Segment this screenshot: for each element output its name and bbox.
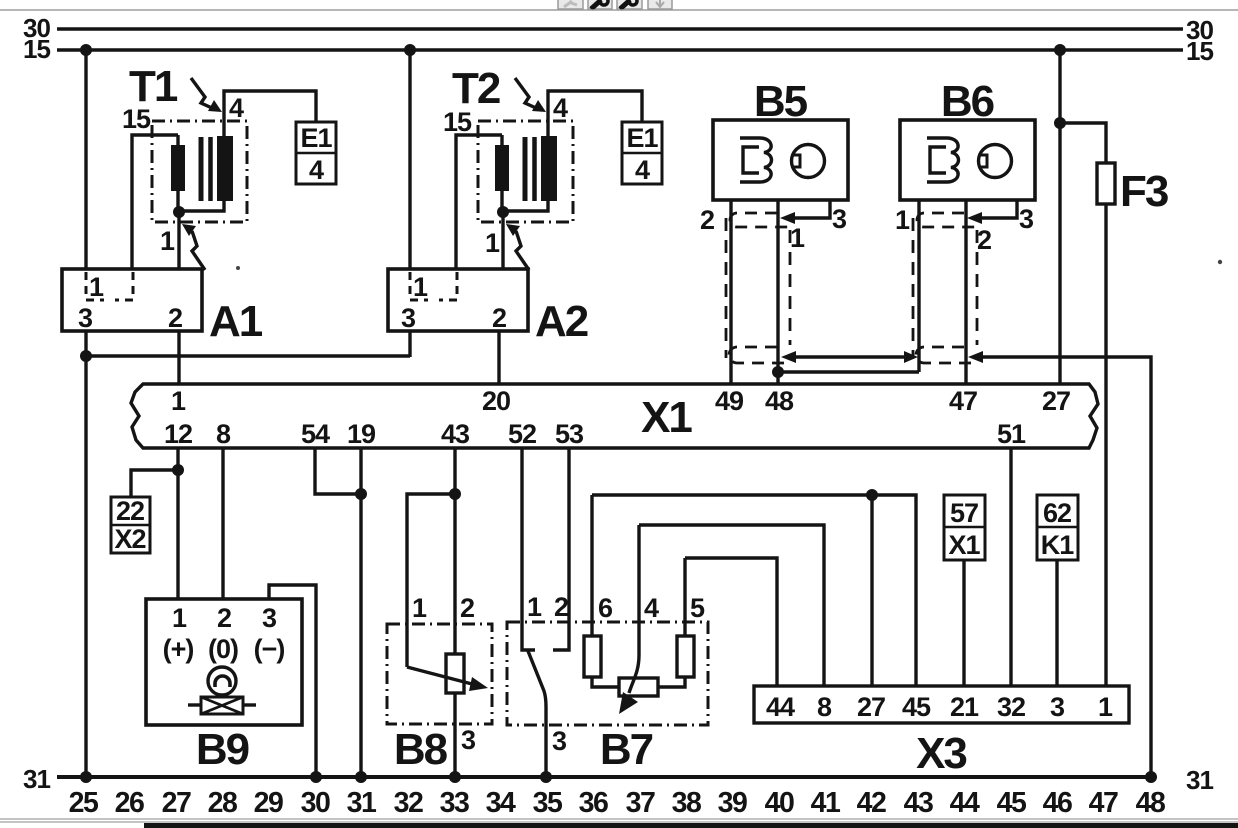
wire A1 pin3 to bus 31 xyxy=(84,331,87,777)
svg-text:43: 43 xyxy=(904,787,933,819)
B9 valve symbol xyxy=(188,697,256,714)
B7 wiper arrow pin 4 xyxy=(619,622,639,714)
wire X1-54 down xyxy=(315,448,361,494)
svg-text:1: 1 xyxy=(895,205,910,235)
svg-text:44: 44 xyxy=(950,787,980,819)
ground box E1/4 (T2) xyxy=(622,122,662,185)
wire X1-12 to B9 pin 1 xyxy=(176,448,179,600)
T2 spark arrow top xyxy=(515,78,546,112)
svg-text:1: 1 xyxy=(485,228,500,258)
wire B9 pin 3 to bus 31 xyxy=(269,585,316,777)
node A1 pin3 / A2 pin3 tee xyxy=(80,350,92,362)
node bus31/B9 xyxy=(310,771,322,783)
wire pin 6 to X3-45 xyxy=(592,495,916,687)
svg-text:45: 45 xyxy=(997,787,1027,819)
connector strip X1 outline xyxy=(131,384,1098,448)
svg-text:1: 1 xyxy=(412,593,427,623)
svg-text:X1: X1 xyxy=(948,530,980,560)
svg-text:4: 4 xyxy=(309,155,324,185)
svg-text:31: 31 xyxy=(347,787,377,819)
svg-text:F3: F3 xyxy=(1120,167,1168,216)
svg-text:2: 2 xyxy=(492,303,506,333)
svg-text:1: 1 xyxy=(1098,692,1113,722)
B9 throttle symbol circle xyxy=(208,667,236,695)
wire A1-A2 pin3 link xyxy=(86,354,410,357)
toolbar button 2 (zoom in) xyxy=(588,0,612,9)
node bus15/X1-27 xyxy=(1054,44,1066,56)
bus 15 xyxy=(57,48,1183,52)
svg-text:29: 29 xyxy=(254,787,283,819)
svg-text:54: 54 xyxy=(301,419,330,449)
bus 31 xyxy=(57,775,1155,779)
svg-text:27: 27 xyxy=(857,692,885,722)
wire A2 pin1 supply xyxy=(408,50,411,269)
T2 primary winding xyxy=(495,145,509,191)
svg-text:19: 19 xyxy=(347,419,376,449)
B7 resistor pin5 xyxy=(677,636,694,677)
svg-text:62: 62 xyxy=(1043,498,1071,528)
svg-text:2: 2 xyxy=(700,205,714,235)
svg-text:43: 43 xyxy=(441,419,470,449)
wire pin 5 to X3-44 xyxy=(685,558,777,687)
B5 pin 3 shield arrow xyxy=(780,212,795,224)
wire T2 pin 4 to E1 xyxy=(548,91,642,136)
sensor B9 box xyxy=(146,599,302,725)
toolbar button 1 (disabled zoom tool) xyxy=(558,0,583,9)
svg-text:44: 44 xyxy=(766,692,795,722)
node B5 shield to X1-48 xyxy=(772,366,784,378)
svg-text:1: 1 xyxy=(527,592,542,622)
svg-text:15: 15 xyxy=(1186,36,1213,66)
wire B8 pin 3 to bus 31 xyxy=(453,693,456,777)
B5 shield left dashed xyxy=(725,218,728,358)
T1 spark arrow top xyxy=(191,78,222,112)
svg-text:8: 8 xyxy=(817,692,832,722)
svg-text:T2: T2 xyxy=(452,64,500,113)
T1 dash-dot housing xyxy=(152,121,247,222)
grid numbers 25-48 xyxy=(69,787,1165,819)
wire B5 pin 1 to X1-48 xyxy=(776,200,779,385)
svg-text:45: 45 xyxy=(902,692,931,722)
B7 track resistor xyxy=(619,678,658,696)
control unit A2 box xyxy=(388,269,528,331)
svg-text:46: 46 xyxy=(1043,787,1072,819)
wire B8 pin 1 xyxy=(407,494,455,667)
svg-text:(0): (0) xyxy=(208,634,238,664)
knock sensor B5 box xyxy=(713,120,848,200)
wire A1 pin1 supply xyxy=(84,50,87,269)
svg-text:32: 32 xyxy=(997,692,1025,722)
wire resistor5 to track xyxy=(658,677,685,687)
node bus31/19 xyxy=(355,771,367,783)
svg-text:A1: A1 xyxy=(209,297,263,346)
T1 core line a xyxy=(199,137,204,201)
svg-text:15: 15 xyxy=(122,104,151,134)
wire 15 to primary xyxy=(500,135,503,146)
svg-text:25: 25 xyxy=(69,787,99,819)
svg-text:2: 2 xyxy=(217,603,231,633)
speck top right xyxy=(1218,260,1222,264)
B6 shield top capsule xyxy=(917,213,978,227)
svg-text:2: 2 xyxy=(460,593,474,623)
A2 internal dashed link right xyxy=(439,272,457,300)
B6 shield bottom capsule xyxy=(916,347,978,363)
svg-text:28: 28 xyxy=(208,787,237,819)
wire B6 pin 2 to X1-47 xyxy=(964,200,967,385)
svg-text:A2: A2 xyxy=(535,297,588,346)
A1 internal dashed link right xyxy=(115,272,133,300)
wire B7 pin 5 xyxy=(683,558,686,637)
B6 shield right dashed xyxy=(976,230,979,345)
B7 switch blade xyxy=(528,651,546,777)
fuse F3 xyxy=(1097,163,1115,204)
wire B6 shield to bus 31 xyxy=(983,357,1151,777)
wire A2 pin3 xyxy=(408,331,411,357)
svg-text:31: 31 xyxy=(1186,765,1213,795)
svg-text:2: 2 xyxy=(977,225,991,255)
T2 core line a xyxy=(523,137,528,201)
svg-text:27: 27 xyxy=(1042,386,1070,416)
svg-text:B9: B9 xyxy=(196,725,249,774)
svg-text:3: 3 xyxy=(552,726,567,756)
svg-text:52: 52 xyxy=(508,419,536,449)
svg-text:6: 6 xyxy=(598,593,613,623)
svg-text:15: 15 xyxy=(443,107,472,137)
wire T2 pin 1 to A2 xyxy=(501,212,504,269)
svg-text:12: 12 xyxy=(164,419,192,449)
wire A2 pin 2 to X1-20 xyxy=(497,331,500,385)
terminal box 62/K1 xyxy=(1037,495,1078,560)
wire shield line B5 to B6 xyxy=(795,355,905,358)
T1 secondary winding xyxy=(217,136,233,201)
node bus31/B7 xyxy=(540,771,552,783)
svg-text:2: 2 xyxy=(168,303,182,333)
svg-text:36: 36 xyxy=(579,787,608,819)
svg-text:X2: X2 xyxy=(114,524,145,554)
svg-text:38: 38 xyxy=(672,787,701,819)
bottom scan line grey 1 xyxy=(0,818,1238,820)
T2 core line b xyxy=(532,137,537,201)
svg-text:47: 47 xyxy=(949,386,977,416)
wire X1-53 to B7 pin 2 xyxy=(553,448,569,650)
wire T1 primary bottom xyxy=(176,191,179,212)
knock sensor B6 box xyxy=(900,120,1035,200)
wire T1 pin 4 to E1 xyxy=(224,91,316,136)
svg-text:32: 32 xyxy=(394,787,423,819)
svg-text:4: 4 xyxy=(644,593,659,623)
svg-text:27: 27 xyxy=(162,787,191,819)
B8 resistor xyxy=(446,654,464,693)
B6 shield right arrow xyxy=(968,351,983,363)
svg-text:4: 4 xyxy=(553,93,568,123)
wire 57/X1 to X3-21 xyxy=(962,560,965,687)
svg-text:3: 3 xyxy=(1019,204,1034,234)
svg-text:40: 40 xyxy=(765,787,794,819)
svg-text:8: 8 xyxy=(216,419,231,449)
svg-text:47: 47 xyxy=(1089,787,1118,819)
B8 wiper arrow xyxy=(407,667,488,691)
wire B7 pin 4 upper xyxy=(637,525,640,623)
wire X1-27 from bus 15 xyxy=(1058,50,1061,385)
svg-text:1: 1 xyxy=(172,603,187,633)
B5 shield bottom arrow xyxy=(781,351,796,363)
svg-text:E1: E1 xyxy=(300,123,332,153)
svg-text:3: 3 xyxy=(262,603,277,633)
wire T1 secondary to pin1 node xyxy=(179,200,224,211)
ground box E1/4 (T1) xyxy=(296,122,336,185)
wire X1-52 to B7 pin 1 xyxy=(522,448,535,650)
svg-text:K1: K1 xyxy=(1041,530,1074,560)
svg-text:42: 42 xyxy=(857,787,886,819)
bottom scan line grey 2 xyxy=(0,821,1238,823)
svg-text:1: 1 xyxy=(413,272,428,302)
svg-text:4: 4 xyxy=(229,93,244,123)
svg-text:57: 57 xyxy=(950,498,978,528)
node T1 pin 1 xyxy=(173,206,185,218)
svg-text:15: 15 xyxy=(23,34,50,64)
svg-text:26: 26 xyxy=(115,787,144,819)
svg-text:41: 41 xyxy=(811,787,841,819)
B6 piezo symbol xyxy=(927,138,959,182)
top separator line xyxy=(0,9,1238,11)
svg-text:(−): (−) xyxy=(254,634,285,664)
svg-text:3: 3 xyxy=(832,204,847,234)
svg-text:31: 31 xyxy=(23,764,50,794)
wire F3 feed xyxy=(1060,123,1106,164)
svg-text:35: 35 xyxy=(533,787,563,819)
node 22/X2 tap xyxy=(172,464,184,476)
wire T2 secondary to pin1 node xyxy=(503,200,548,211)
T2 secondary winding xyxy=(541,136,557,201)
A2 internal dashed link left xyxy=(410,272,428,300)
T2 dash-dot housing xyxy=(478,121,573,222)
T1 core line b xyxy=(208,137,213,201)
B6 shield left dashed xyxy=(912,218,915,358)
node F3 tap xyxy=(1054,117,1066,129)
B5 seismic mass symbol xyxy=(792,145,825,178)
wire T1 terminal 15 to A1 xyxy=(132,135,178,269)
svg-text:22: 22 xyxy=(116,496,144,526)
wire 15 to primary xyxy=(176,135,179,146)
svg-text:1: 1 xyxy=(160,226,175,256)
throttle switch B7 dash-dot box xyxy=(507,622,708,725)
wire X1-8 to B9 pin 2 xyxy=(221,448,224,600)
svg-text:B7: B7 xyxy=(600,725,653,774)
wire to X3-27 xyxy=(870,495,873,687)
wire B5 pin 2 to X1-49 xyxy=(729,200,732,385)
B5 piezo symbol xyxy=(740,138,772,182)
svg-text:37: 37 xyxy=(626,787,655,819)
svg-text:3: 3 xyxy=(401,303,416,333)
B6 seismic mass symbol xyxy=(979,145,1012,178)
svg-text:48: 48 xyxy=(765,386,794,416)
svg-text:30: 30 xyxy=(301,787,330,819)
wire resistor6 to track xyxy=(592,677,620,687)
wire B6 pin 3 stub xyxy=(981,200,1017,218)
control unit A1 box xyxy=(62,269,202,331)
node 54/19 join xyxy=(355,488,367,500)
svg-text:2: 2 xyxy=(554,592,568,622)
terminal box 22/X2 xyxy=(111,496,150,554)
svg-text:B8: B8 xyxy=(394,725,448,774)
B5 shield top capsule xyxy=(730,213,791,227)
node bus15/A1 supply xyxy=(80,44,92,56)
node bus31 shield xyxy=(1145,771,1157,783)
svg-text:49: 49 xyxy=(715,386,744,416)
svg-text:33: 33 xyxy=(440,787,469,819)
svg-text:3: 3 xyxy=(461,725,476,755)
svg-text:3: 3 xyxy=(1050,692,1065,722)
svg-text:53: 53 xyxy=(555,419,584,449)
wire X1-19 to bus 31 xyxy=(359,448,362,777)
svg-text:X3: X3 xyxy=(916,729,966,778)
svg-text:5: 5 xyxy=(690,593,705,623)
A1 internal dashed link left xyxy=(86,272,104,300)
B5 shield right dashed xyxy=(789,230,792,345)
node X3-27 tap xyxy=(866,489,878,501)
svg-text:48: 48 xyxy=(1136,787,1165,819)
svg-text:20: 20 xyxy=(482,386,510,416)
svg-text:E1: E1 xyxy=(626,123,658,153)
wire A1 pin 2 to X1-1 xyxy=(177,331,180,385)
wire X1-51 to X3-32 xyxy=(1009,448,1012,687)
connector strip X3 xyxy=(754,686,1129,723)
svg-text:1: 1 xyxy=(171,386,186,416)
T2 spark arrow bottom xyxy=(506,224,529,270)
B6 pin 3 shield arrow xyxy=(967,212,982,224)
wire shield link B5-B6 lower xyxy=(778,370,919,373)
wire T2 primary bottom xyxy=(500,191,503,212)
svg-text:21: 21 xyxy=(950,692,979,722)
wire T1 pin 1 to A1 xyxy=(177,212,180,269)
svg-text:51: 51 xyxy=(997,419,1026,449)
svg-text:4: 4 xyxy=(635,155,650,185)
speck near A1 xyxy=(236,266,240,270)
wire B5 pin 3 stub xyxy=(794,200,830,218)
wire F3 to X3-1 xyxy=(1104,204,1107,687)
svg-text:34: 34 xyxy=(486,787,516,819)
wire B7 pin 6 xyxy=(590,495,593,637)
svg-text:39: 39 xyxy=(718,787,747,819)
bus 30 xyxy=(57,27,1183,31)
B6 shield left arrow xyxy=(904,351,918,363)
node bus31/B8 xyxy=(449,771,461,783)
wire 62/K1 to X3-3 xyxy=(1055,560,1058,687)
svg-text:1: 1 xyxy=(89,272,104,302)
B7 resistor pin6 xyxy=(584,636,601,677)
wire B6 pin 1 down xyxy=(917,200,920,372)
toolbar button 3 (zoom out) xyxy=(617,0,642,9)
terminal box 57/X1 xyxy=(944,495,985,560)
svg-text:(+): (+) xyxy=(163,634,194,664)
throttle potentiometer B8 dash-dot box xyxy=(387,624,492,724)
wire T2 terminal 15 to A2 xyxy=(456,135,502,269)
node B8 pin1 link xyxy=(449,488,461,500)
svg-text:1: 1 xyxy=(790,223,805,253)
bottom scan band black xyxy=(144,823,1238,828)
B5 shield bottom capsule xyxy=(729,347,791,363)
wire pin 4 to X3-8 xyxy=(639,525,824,687)
T1 spark arrow bottom xyxy=(182,224,205,270)
node bus15/A2 supply xyxy=(404,44,416,56)
toolbar button 4 (down arrow) xyxy=(648,0,672,9)
T1 primary winding xyxy=(171,145,185,191)
svg-text:X1: X1 xyxy=(641,393,692,442)
wire X1-43 to B8 pin 2 xyxy=(453,448,456,655)
svg-text:3: 3 xyxy=(78,303,93,333)
node bus31/A1 xyxy=(80,771,92,783)
node T2 pin 1 xyxy=(497,206,509,218)
wire to terminal 22/X2 xyxy=(131,470,178,498)
